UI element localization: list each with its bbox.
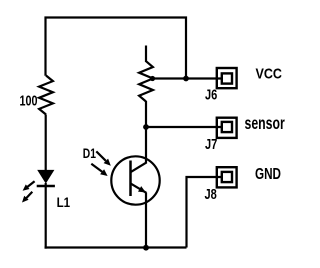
LED light-emission arrow lower bbox=[25, 192, 32, 200]
wire GND connector J8 to bottom bus bbox=[187, 177, 222, 248]
phototransistor D1 body circle bbox=[111, 156, 159, 204]
junction on VCC riser bbox=[183, 76, 189, 82]
LED L1 anode triangle bbox=[37, 170, 54, 184]
wire emitter to bottom bus bbox=[145, 193, 147, 249]
svg-text:VCC: VCC bbox=[256, 66, 283, 83]
LED L1 cathode bar bbox=[37, 185, 55, 188]
svg-text:J6: J6 bbox=[205, 88, 217, 104]
junction emitter at bottom bus bbox=[143, 245, 149, 251]
svg-text:GND: GND bbox=[255, 166, 281, 183]
D1 base bar bbox=[129, 161, 132, 197]
connector J8 outer square bbox=[217, 167, 237, 187]
resistor R2 top stub bbox=[145, 46, 147, 63]
svg-text:J7: J7 bbox=[205, 137, 217, 153]
svg-text:100: 100 bbox=[20, 94, 38, 110]
wire R2 bottom to transistor collector bbox=[145, 101, 147, 164]
wire sensor tap to J7 bbox=[145, 126, 222, 128]
resistor R1 value 100 bbox=[39, 76, 53, 115]
connector J6 outer square bbox=[217, 68, 237, 88]
D1 emitter diagonal with arrow bbox=[131, 183, 147, 192]
wire left rail between R1 and LED L1 bbox=[45, 115, 47, 172]
junction at R2 tap bbox=[150, 76, 155, 81]
svg-text:L1: L1 bbox=[57, 194, 71, 210]
connector J8 inner pin square bbox=[222, 172, 232, 182]
junction at sensor tap bbox=[143, 124, 149, 130]
wire top bus from left rail to VCC riser bbox=[46, 18, 187, 79]
wire bottom bus bbox=[45, 246, 187, 248]
svg-text:J8: J8 bbox=[205, 187, 217, 203]
resistor R2 bias resistor bbox=[139, 61, 153, 101]
connector J7 outer square bbox=[217, 118, 237, 138]
LED light-emission arrow upper bbox=[26, 181, 35, 188]
connector J7 inner pin square bbox=[222, 122, 232, 132]
connector J6 inner pin square bbox=[222, 73, 232, 83]
wire left rail below LED to bottom bus bbox=[45, 183, 47, 249]
svg-text:D1: D1 bbox=[83, 146, 97, 161]
D1 collector diagonal bbox=[131, 163, 147, 173]
svg-text:sensor: sensor bbox=[245, 113, 285, 133]
wire R2 tap to VCC connector J6 bbox=[152, 77, 222, 79]
D1 incident-light arrow upper bbox=[96, 151, 106, 160]
D1 incident-light arrow lower bbox=[91, 164, 102, 172]
